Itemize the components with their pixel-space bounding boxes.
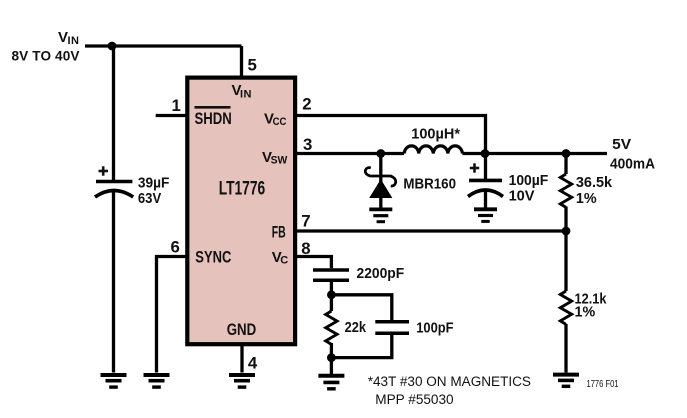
junction node at VIN rail	[108, 42, 117, 51]
capacitor C4 100pF plates	[375, 322, 409, 334]
svg-text:FB: FB	[272, 224, 286, 242]
wire 36.5k bottom	[564, 207, 567, 232]
svg-text:22k: 22k	[345, 319, 367, 336]
svg-text:2: 2	[302, 95, 311, 114]
ground at left rail	[101, 375, 127, 387]
svg-text:*43T #30 ON MAGNETICS: *43T #30 ON MAGNETICS	[368, 374, 531, 390]
svg-text:100pF: 100pF	[416, 320, 453, 337]
ground at 12.1k	[553, 375, 579, 387]
wire 22k bottom node to 100pF bottom	[331, 335, 391, 358]
junction node diode/VSW	[376, 149, 385, 158]
wire diode top	[379, 154, 382, 183]
svg-text:LT1776: LT1776	[219, 179, 266, 200]
wire 100uF bottom	[484, 192, 487, 208]
svg-text:8: 8	[301, 239, 310, 258]
svg-text:100µF: 100µF	[509, 172, 549, 189]
resistor R2 12.1k	[560, 291, 571, 324]
svg-text:63V: 63V	[138, 190, 161, 207]
svg-text:SYNC: SYNC	[195, 248, 231, 266]
ground at SYNC	[144, 375, 170, 387]
wire pin2 VCC	[295, 116, 486, 153]
svg-text:2200pF: 2200pF	[357, 265, 405, 282]
svg-text:400mA: 400mA	[610, 156, 655, 173]
ground at 22k/100pF	[318, 376, 344, 389]
svg-text:SHDN: SHDN	[195, 110, 232, 128]
wire pin1 stub	[156, 114, 187, 117]
wire left rail lower	[112, 192, 115, 373]
junction node 36.5k top	[562, 149, 571, 158]
wire diode bottom	[379, 197, 382, 210]
diode D1 MBR160 schottky	[365, 168, 395, 198]
resistor R1 36.5k	[560, 174, 571, 207]
node label output 5V 400mA	[610, 136, 655, 173]
svg-text:3: 3	[303, 135, 312, 154]
svg-text:1%: 1%	[576, 190, 597, 207]
svg-text:1%: 1%	[575, 304, 596, 321]
value label C2 100uF 10V	[509, 172, 549, 205]
svg-text:4: 4	[248, 354, 258, 373]
capacitor C3 2200pF plates	[313, 270, 349, 280]
svg-text:7: 7	[301, 211, 310, 230]
wire 22k bottom	[330, 343, 333, 374]
IC pin label VCC	[264, 110, 286, 128]
svg-text:100µH*: 100µH*	[411, 125, 460, 142]
svg-text:GND: GND	[227, 321, 257, 339]
wire 36.5k top	[564, 154, 567, 175]
ground at diode	[369, 209, 392, 221]
wire SYNC to ground	[157, 257, 188, 373]
svg-text:1776 F01: 1776 F01	[587, 379, 619, 390]
junction node FB/resistor divider	[562, 227, 571, 236]
capacitor C1 39uF plates	[95, 182, 133, 198]
junction node VC network bottom	[327, 353, 336, 362]
svg-text:8V TO 40V: 8V TO 40V	[12, 49, 80, 64]
wire pin4 GND	[240, 346, 243, 373]
wire pin5 drop	[240, 46, 243, 77]
wire 22k top	[330, 295, 333, 311]
svg-text:C: C	[280, 255, 288, 267]
svg-text:5V: 5V	[612, 136, 631, 153]
svg-text:IN: IN	[68, 35, 80, 47]
svg-text:MPP #55030: MPP #55030	[375, 392, 453, 408]
resistor R3 22k	[326, 311, 337, 344]
note magnetics	[368, 374, 531, 408]
wire 2200pF bottom to node	[330, 282, 333, 295]
junction node VC network top	[327, 290, 336, 299]
value label R1 36.5k 1%	[576, 174, 613, 207]
junction node 100uF/VCC	[481, 149, 490, 158]
IC pin label SHDN with overline	[195, 107, 232, 128]
wire node to 100pF top	[331, 295, 391, 320]
svg-text:6: 6	[171, 238, 180, 257]
IC U1 LT1776 body	[187, 78, 295, 345]
wire pin3 VSW output	[295, 152, 404, 155]
IC pin label VC	[272, 249, 289, 267]
plus sign C2	[470, 163, 479, 172]
svg-text:39µF: 39µF	[138, 175, 170, 192]
ground at 100uF	[474, 209, 497, 221]
IC pin label VSW	[262, 149, 288, 167]
wire 100uF top	[484, 154, 487, 180]
svg-text:10V: 10V	[509, 188, 535, 205]
value label C1 39uF 63V	[138, 175, 170, 208]
wire 12.1k bottom	[564, 324, 567, 373]
wire VIN top rail	[85, 44, 242, 47]
plus sign C1	[99, 166, 109, 175]
ground at pin4 GND	[229, 375, 255, 387]
svg-text:36.5k: 36.5k	[576, 174, 613, 191]
svg-text:V: V	[58, 29, 68, 46]
value label R2 12.1k 1%	[575, 291, 608, 321]
svg-text:IN: IN	[240, 89, 252, 101]
wire left rail upper	[112, 46, 115, 180]
svg-text:CC: CC	[273, 116, 287, 128]
capacitor C2 100uF plates	[468, 180, 503, 196]
wire 12.1k top	[564, 231, 567, 291]
IC pin label VIN	[232, 82, 252, 100]
svg-text:SW: SW	[271, 155, 288, 167]
svg-text:MBR160: MBR160	[403, 175, 456, 192]
node label VIN source	[12, 29, 80, 64]
inductor L1 100uH	[404, 146, 462, 154]
svg-text:1: 1	[172, 96, 181, 115]
svg-text:5: 5	[248, 56, 257, 75]
wire FB	[295, 229, 566, 232]
wire VC to 2200pF	[295, 257, 331, 269]
